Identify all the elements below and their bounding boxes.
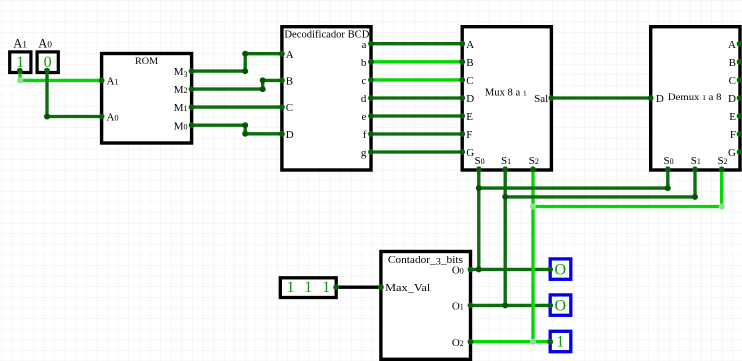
port dot pin A1 bbox=[17, 68, 23, 74]
wire Max_Val bus bbox=[336, 286, 381, 289]
svg-text:D: D bbox=[286, 129, 294, 141]
svg-text:O: O bbox=[555, 297, 567, 314]
wire mux Sal to demux D bbox=[551, 96, 650, 99]
junction node S1 row bbox=[502, 194, 508, 200]
corner node A0 net bbox=[44, 114, 50, 120]
port dot demux output E bbox=[737, 113, 742, 119]
svg-text:A1: A1 bbox=[107, 76, 119, 88]
svg-text:1: 1 bbox=[287, 279, 295, 296]
port dot pin Max_Val bbox=[333, 284, 339, 290]
port dot demux D bbox=[648, 95, 654, 101]
port dot demux output C bbox=[737, 77, 742, 83]
corner node M0 jog bottom bbox=[242, 131, 248, 137]
port dot ROM A1 bbox=[99, 78, 105, 84]
wire S0 horizontal to demux S0 bbox=[479, 186, 668, 189]
svg-text:O2: O2 bbox=[452, 337, 464, 349]
junction node S0 at O0 bbox=[476, 266, 482, 272]
wire pin A0 to ROM A0 bbox=[47, 115, 102, 118]
svg-text:S2: S2 bbox=[529, 155, 539, 167]
svg-text:Mux 8 a 1: Mux 8 a 1 bbox=[485, 87, 527, 98]
wire demux S2 stub bbox=[720, 170, 723, 207]
svg-text:e: e bbox=[362, 111, 367, 123]
corner node M0 jog top bbox=[242, 122, 248, 128]
port dot mux S0 bbox=[476, 166, 482, 172]
svg-text:M2: M2 bbox=[174, 84, 188, 96]
port dot mux E bbox=[459, 113, 465, 119]
port dot mux F bbox=[459, 131, 465, 137]
svg-text:c: c bbox=[362, 75, 367, 87]
svg-text:F: F bbox=[466, 129, 472, 141]
junction node S1 at O1 bbox=[502, 302, 508, 308]
svg-text:D: D bbox=[466, 93, 474, 105]
svg-text:C: C bbox=[729, 75, 736, 87]
port dot demux output D bbox=[737, 95, 742, 101]
output pin O0 box bbox=[550, 259, 571, 279]
port dot decoder b bbox=[368, 59, 374, 65]
port dot mux D bbox=[459, 95, 465, 101]
svg-text:1: 1 bbox=[556, 334, 564, 351]
port dot ROM M0 bbox=[189, 122, 195, 128]
port dot pin O1 bbox=[547, 303, 553, 309]
wire counter O0 to pin O0 bbox=[471, 268, 551, 271]
svg-text:O: O bbox=[555, 261, 567, 278]
svg-text:E: E bbox=[466, 111, 473, 123]
port dot counter O1 bbox=[468, 303, 474, 309]
svg-text:S1: S1 bbox=[691, 155, 701, 167]
corner node M2 jog bottom bbox=[260, 86, 266, 92]
svg-text:E: E bbox=[729, 111, 736, 123]
port dot ROM M3 bbox=[189, 68, 195, 74]
wire decoder d to mux D bbox=[371, 96, 462, 99]
port dot pin O2 bbox=[547, 339, 553, 345]
port dot decoder g bbox=[368, 149, 374, 155]
Mux 8 a 1 U3 body bbox=[462, 27, 551, 170]
wire counter O1 to pin O1 bbox=[471, 304, 551, 307]
junction node S2 row (pale) bbox=[530, 203, 536, 209]
svg-text:Demux 1 a 8: Demux 1 a 8 bbox=[668, 92, 722, 103]
port dot mux Sal bbox=[549, 95, 555, 101]
svg-text:S1: S1 bbox=[501, 155, 511, 167]
svg-text:A0: A0 bbox=[38, 37, 52, 51]
svg-text:O0: O0 bbox=[452, 265, 464, 277]
svg-text:Sal: Sal bbox=[534, 93, 548, 105]
svg-text:0: 0 bbox=[44, 54, 52, 71]
svg-text:g: g bbox=[361, 147, 367, 159]
Contador_3_bits U5 body bbox=[381, 252, 471, 360]
svg-text:G: G bbox=[728, 147, 736, 159]
junction node S0 row bbox=[476, 185, 482, 191]
port dot decoder c bbox=[368, 77, 374, 83]
corner node A1 net (pale) bbox=[17, 77, 23, 83]
svg-text:O1: O1 bbox=[452, 301, 464, 313]
port dot counter O2 bbox=[468, 339, 474, 345]
Demux 1 a 8 U4 body bbox=[651, 27, 740, 170]
port dot decoder f bbox=[368, 131, 374, 137]
port dot decoder a bbox=[368, 41, 374, 47]
wire pin A0 vertical bbox=[45, 71, 48, 117]
wire decoder c to mux C bbox=[371, 78, 462, 81]
port dot demux output G bbox=[737, 149, 742, 155]
corner node M3 jog top bbox=[242, 51, 248, 57]
wire decoder f to mux F bbox=[371, 132, 462, 135]
port dot mux B bbox=[459, 59, 465, 65]
corner node M3 jog bottom bbox=[242, 68, 248, 74]
svg-text:ROM: ROM bbox=[135, 57, 159, 67]
port dot counter Max_Val bbox=[378, 284, 384, 290]
svg-text:1: 1 bbox=[16, 54, 24, 71]
port dot decoder D bbox=[279, 131, 285, 137]
input pin A0 box bbox=[37, 52, 58, 73]
output pin O1 box bbox=[550, 295, 571, 315]
svg-text:C: C bbox=[466, 75, 473, 87]
wire decoder g to mux G bbox=[371, 150, 462, 153]
svg-text:b: b bbox=[361, 57, 367, 69]
input pin Max_Val box bbox=[280, 278, 336, 298]
svg-text:B: B bbox=[466, 57, 473, 69]
port dot demux output F bbox=[737, 131, 742, 137]
svg-text:A: A bbox=[728, 39, 736, 51]
port dot mux C bbox=[459, 77, 465, 83]
port dot decoder e bbox=[368, 113, 374, 119]
svg-text:M0: M0 bbox=[174, 120, 188, 132]
svg-text:1: 1 bbox=[322, 279, 330, 296]
port dot mux S1 bbox=[502, 166, 508, 172]
corner node demux S2 (pale) bbox=[719, 203, 725, 209]
wire ROM M1 to decoder C bbox=[192, 105, 282, 108]
corner node demux S1 bbox=[692, 194, 698, 200]
wire demux S1 stub bbox=[693, 170, 696, 197]
svg-text:A: A bbox=[286, 49, 294, 61]
port dot mux A bbox=[459, 41, 465, 47]
port dot mux G bbox=[459, 149, 465, 155]
wire mux S0 vertical bbox=[477, 170, 480, 269]
wire ROM M0 to decoder D bbox=[192, 125, 282, 134]
port dot ROM M2 bbox=[189, 86, 195, 92]
output pin O2 box bbox=[550, 331, 571, 351]
port dot demux output A bbox=[737, 41, 742, 47]
svg-text:A1: A1 bbox=[13, 37, 27, 51]
ROM U1 body bbox=[102, 54, 192, 144]
Decodificador BCD U2 body bbox=[282, 27, 371, 170]
wire mux S2 vertical bbox=[531, 170, 534, 342]
svg-text:d: d bbox=[361, 93, 367, 105]
svg-text:B: B bbox=[729, 57, 736, 69]
wire decoder e to mux E bbox=[371, 114, 462, 117]
svg-text:A: A bbox=[466, 39, 474, 51]
port dot decoder C bbox=[279, 104, 285, 110]
svg-text:S0: S0 bbox=[475, 155, 485, 167]
wire pin A1 stub bbox=[18, 71, 21, 81]
svg-text:Max_Val: Max_Val bbox=[385, 282, 430, 294]
port dot demux S1 bbox=[692, 166, 698, 172]
svg-text:A0: A0 bbox=[107, 112, 119, 124]
svg-text:G: G bbox=[466, 147, 474, 159]
wire mux S1 vertical bbox=[504, 170, 507, 305]
svg-text:a: a bbox=[362, 39, 367, 51]
svg-text:f: f bbox=[363, 129, 367, 141]
input pin A1 box bbox=[10, 52, 31, 73]
svg-text:C: C bbox=[286, 102, 293, 114]
wire ROM M3 to decoder A bbox=[192, 54, 282, 71]
wire decoder b to mux B bbox=[371, 60, 462, 63]
port dot demux S2 bbox=[719, 166, 725, 172]
port dot pin O0 bbox=[547, 267, 553, 273]
port dot ROM A0 bbox=[99, 114, 105, 120]
wire S2 horizontal to demux S2 bbox=[533, 205, 722, 208]
wire S1 horizontal to demux S1 bbox=[505, 195, 695, 198]
port dot ROM M1 bbox=[189, 104, 195, 110]
wire counter O2 to pin O2 bbox=[471, 340, 551, 343]
svg-text:M1: M1 bbox=[174, 102, 188, 114]
port dot pin A0 bbox=[44, 68, 50, 74]
wire ROM M2 to decoder B bbox=[192, 80, 282, 89]
svg-text:D: D bbox=[656, 93, 664, 105]
corner node M2 jog top bbox=[260, 77, 266, 83]
svg-text:F: F bbox=[730, 129, 736, 141]
svg-text:S2: S2 bbox=[717, 155, 727, 167]
wire demux S0 stub bbox=[666, 170, 669, 188]
port dot decoder A bbox=[279, 51, 285, 57]
port dot demux output B bbox=[737, 59, 742, 65]
corner node demux S0 bbox=[665, 185, 671, 191]
svg-text:D: D bbox=[728, 93, 736, 105]
svg-text:S0: S0 bbox=[664, 155, 674, 167]
wire pin A1 to ROM A1 bbox=[20, 79, 102, 82]
junction node S2 at O2 (pale) bbox=[530, 339, 536, 345]
wire decoder a to mux A bbox=[371, 42, 462, 45]
port dot decoder B bbox=[279, 78, 285, 84]
svg-text:Decodificador BCD: Decodificador BCD bbox=[284, 28, 369, 40]
port dot counter O0 bbox=[468, 267, 474, 273]
port dot mux S2 bbox=[530, 166, 536, 172]
port dot demux S0 bbox=[665, 166, 671, 172]
svg-text:B: B bbox=[286, 76, 293, 88]
port dot decoder d bbox=[368, 95, 374, 101]
svg-text:1: 1 bbox=[304, 279, 312, 296]
